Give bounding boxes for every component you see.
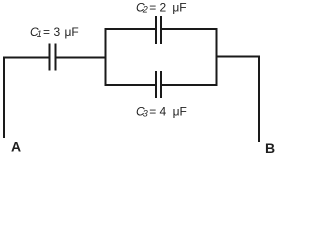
wire [3, 57, 49, 59]
svg-text:C2=2μF: C2=2μF [136, 0, 187, 14]
node right of parallel branch [216, 28, 218, 86]
capacitor C2 [156, 16, 161, 44]
wire [162, 84, 218, 86]
wire [105, 84, 156, 86]
svg-text:A: A [11, 139, 21, 155]
wire [56, 57, 107, 59]
capacitor C3 [156, 71, 161, 98]
wire [105, 28, 156, 30]
wire [162, 28, 218, 30]
terminal A lead [3, 58, 5, 139]
terminal B lead [258, 56, 260, 143]
svg-text:C1=3μF: C1=3μF [30, 25, 79, 39]
capacitor C1 [50, 44, 56, 71]
svg-text:C3=4μF: C3=4μF [136, 105, 187, 119]
wire [216, 56, 261, 58]
node left of parallel branch [105, 28, 107, 86]
svg-text:B: B [265, 140, 275, 156]
